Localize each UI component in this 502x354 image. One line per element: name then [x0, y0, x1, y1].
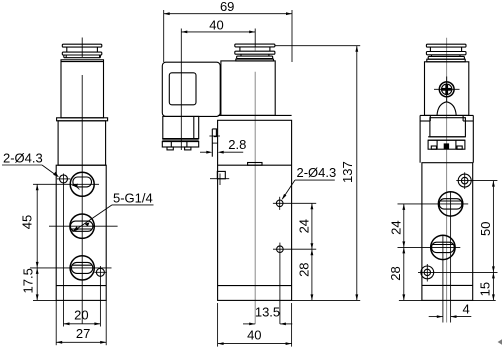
middle view: mounting clip — [209, 129, 220, 157]
middle view: side pilot port square — [210, 171, 229, 185]
left view: vertical centerline — [81, 38, 83, 324]
dimension 40 top (middle view) — [181, 17, 255, 62]
svg-text:69: 69 — [220, 0, 234, 14]
middle view: cap disc 1 — [235, 44, 275, 47]
dimension 28 (middle view) — [297, 249, 314, 300]
right view: cap base ticks — [427, 55, 465, 62]
right view: port A slot — [439, 199, 462, 209]
middle view: cap disc 3 — [236, 54, 274, 61]
right view: housing corner notches — [420, 115, 473, 121]
right view: terminal black key — [444, 143, 449, 149]
right view: bottom extension line — [399, 299, 496, 301]
svg-text:2-Ø4.3: 2-Ø4.3 — [3, 150, 43, 165]
right view: port B slot — [432, 242, 455, 252]
middle view: terminal block — [162, 141, 198, 150]
middle view: cap neck — [240, 47, 270, 51]
left view: mounting hole A — [57, 175, 70, 183]
middle view: solenoid coil block — [221, 61, 275, 116]
right view: connector block — [428, 118, 465, 141]
right view: cap disc 1 — [426, 44, 466, 47]
left view: port 1 circle — [70, 172, 94, 196]
right view: port B centerlines — [398, 235, 461, 323]
corner artifact arrow — [498, 339, 502, 344]
left view: flange ring — [57, 118, 108, 121]
middle view: mounting hole 2 — [273, 243, 316, 324]
left view: bottom extension line — [33, 299, 56, 301]
svg-text:24: 24 — [297, 219, 312, 233]
dimension 2.8 (middle view) — [200, 137, 246, 153]
svg-text:20: 20 — [74, 307, 88, 322]
right view: port A centerlines — [398, 192, 469, 323]
left view: cap disc 1 — [62, 44, 102, 47]
dimension 13.5 (middle view) — [243, 305, 292, 326]
right view: mounting hole D — [418, 264, 498, 282]
left view: base plate line — [56, 285, 106, 287]
right view: cable dome — [437, 102, 456, 116]
label 2-Ø4.3 (left view) — [2, 150, 59, 177]
left view: hole B extension line — [99, 266, 101, 327]
left view: cap disc 2 — [62, 52, 102, 55]
left view: port 3 slot — [71, 262, 92, 273]
right view: cap disc 2 — [426, 52, 466, 55]
middle view: DIN connector body — [162, 62, 220, 116]
svg-text:13.5: 13.5 — [255, 305, 280, 320]
left view: port 1 slot — [73, 177, 92, 187]
dimension 69 (middle view) — [164, 0, 292, 62]
right view: vertical centerline — [446, 38, 448, 323]
dimension 4 (right view) — [429, 301, 472, 318]
dimension 15 (right view) — [478, 272, 495, 300]
left view: port 1 arrow mark — [71, 184, 79, 190]
right view: screw outer circle — [439, 82, 454, 97]
dimension 20 (left view) — [64, 307, 101, 325]
dimension 27 (left view) — [56, 300, 106, 345]
middle view: DIN connector window — [169, 73, 196, 105]
right view: screw inner circle with cross — [442, 84, 452, 94]
right view: port A circle — [438, 192, 462, 216]
left view: port 1 horizontal centerline — [33, 183, 99, 185]
dimension 24 (right view) — [388, 204, 405, 248]
dimension 137 (middle view) — [275, 46, 360, 301]
left view: solenoid cylinder — [61, 60, 104, 118]
svg-text:40: 40 — [209, 17, 223, 32]
middle view: base plate line — [218, 285, 292, 287]
left view: port 2 circle — [70, 214, 94, 238]
middle view: solenoid axis centerline — [254, 47, 256, 324]
middle view: connector plug — [163, 116, 199, 138]
svg-text:5-G1/4: 5-G1/4 — [113, 190, 153, 205]
right view: terminal band — [428, 140, 465, 149]
right view: valve body — [422, 163, 473, 301]
middle view: valve body — [218, 120, 292, 300]
svg-text:45: 45 — [20, 215, 35, 229]
dimension 17.5 (left view) — [21, 268, 39, 301]
svg-text:24: 24 — [388, 220, 403, 234]
left view: hole A extension line — [63, 174, 65, 327]
svg-text:137: 137 — [340, 161, 355, 183]
svg-text:28: 28 — [297, 262, 312, 276]
svg-text:17.5: 17.5 — [21, 268, 36, 293]
middle view: plug flange lines — [162, 139, 198, 142]
svg-text:28: 28 — [388, 266, 403, 280]
svg-text:15: 15 — [478, 282, 493, 296]
left view: port 3 circle — [70, 256, 94, 280]
label 5-G1/4 (left view) — [73, 190, 154, 232]
dimension 50 (right view) — [478, 181, 495, 273]
left view: port 3 horizontal centerline — [30, 267, 112, 269]
middle view: body section line with tab — [218, 163, 292, 166]
left view: adapter block — [58, 121, 106, 165]
dimension 40 bottom (middle view) — [218, 303, 292, 347]
right view: port B circle — [431, 235, 455, 259]
right view: mounting hole C — [456, 172, 497, 189]
left view: cap disc 3 — [64, 55, 101, 58]
right view: connector housing — [420, 115, 473, 162]
right view: cap neck — [430, 47, 461, 51]
middle view: mounting hole 1 — [273, 197, 316, 210]
svg-text:2.8: 2.8 — [228, 137, 246, 152]
svg-text:50: 50 — [478, 222, 493, 236]
middle view: cap disc 2 — [235, 51, 275, 54]
left view: port 2 horizontal centerline — [49, 225, 118, 227]
dimension 45 (left view) — [20, 184, 39, 268]
right view: screw crosshair ticks — [434, 77, 460, 103]
left view: valve body — [56, 165, 106, 300]
svg-text:4: 4 — [463, 301, 470, 316]
right view: solenoid body — [425, 62, 469, 116]
left view: mounting hole B — [95, 268, 107, 276]
label 2-Ø4.3 (middle view) — [282, 165, 337, 200]
dimension 28 (right view) — [388, 247, 405, 300]
middle view: top plate line — [218, 114, 292, 116]
svg-text:40: 40 — [247, 327, 261, 342]
dimension 24 (middle view) — [297, 203, 314, 249]
left view: port 2 slot — [70, 221, 93, 231]
right view: base plate line — [422, 284, 473, 286]
middle view: connector axis line — [180, 62, 182, 150]
svg-text:2-Ø4.3: 2-Ø4.3 — [297, 165, 337, 180]
left view: cap neck between disc1 and disc2 — [67, 47, 98, 52]
svg-text:27: 27 — [76, 326, 90, 341]
